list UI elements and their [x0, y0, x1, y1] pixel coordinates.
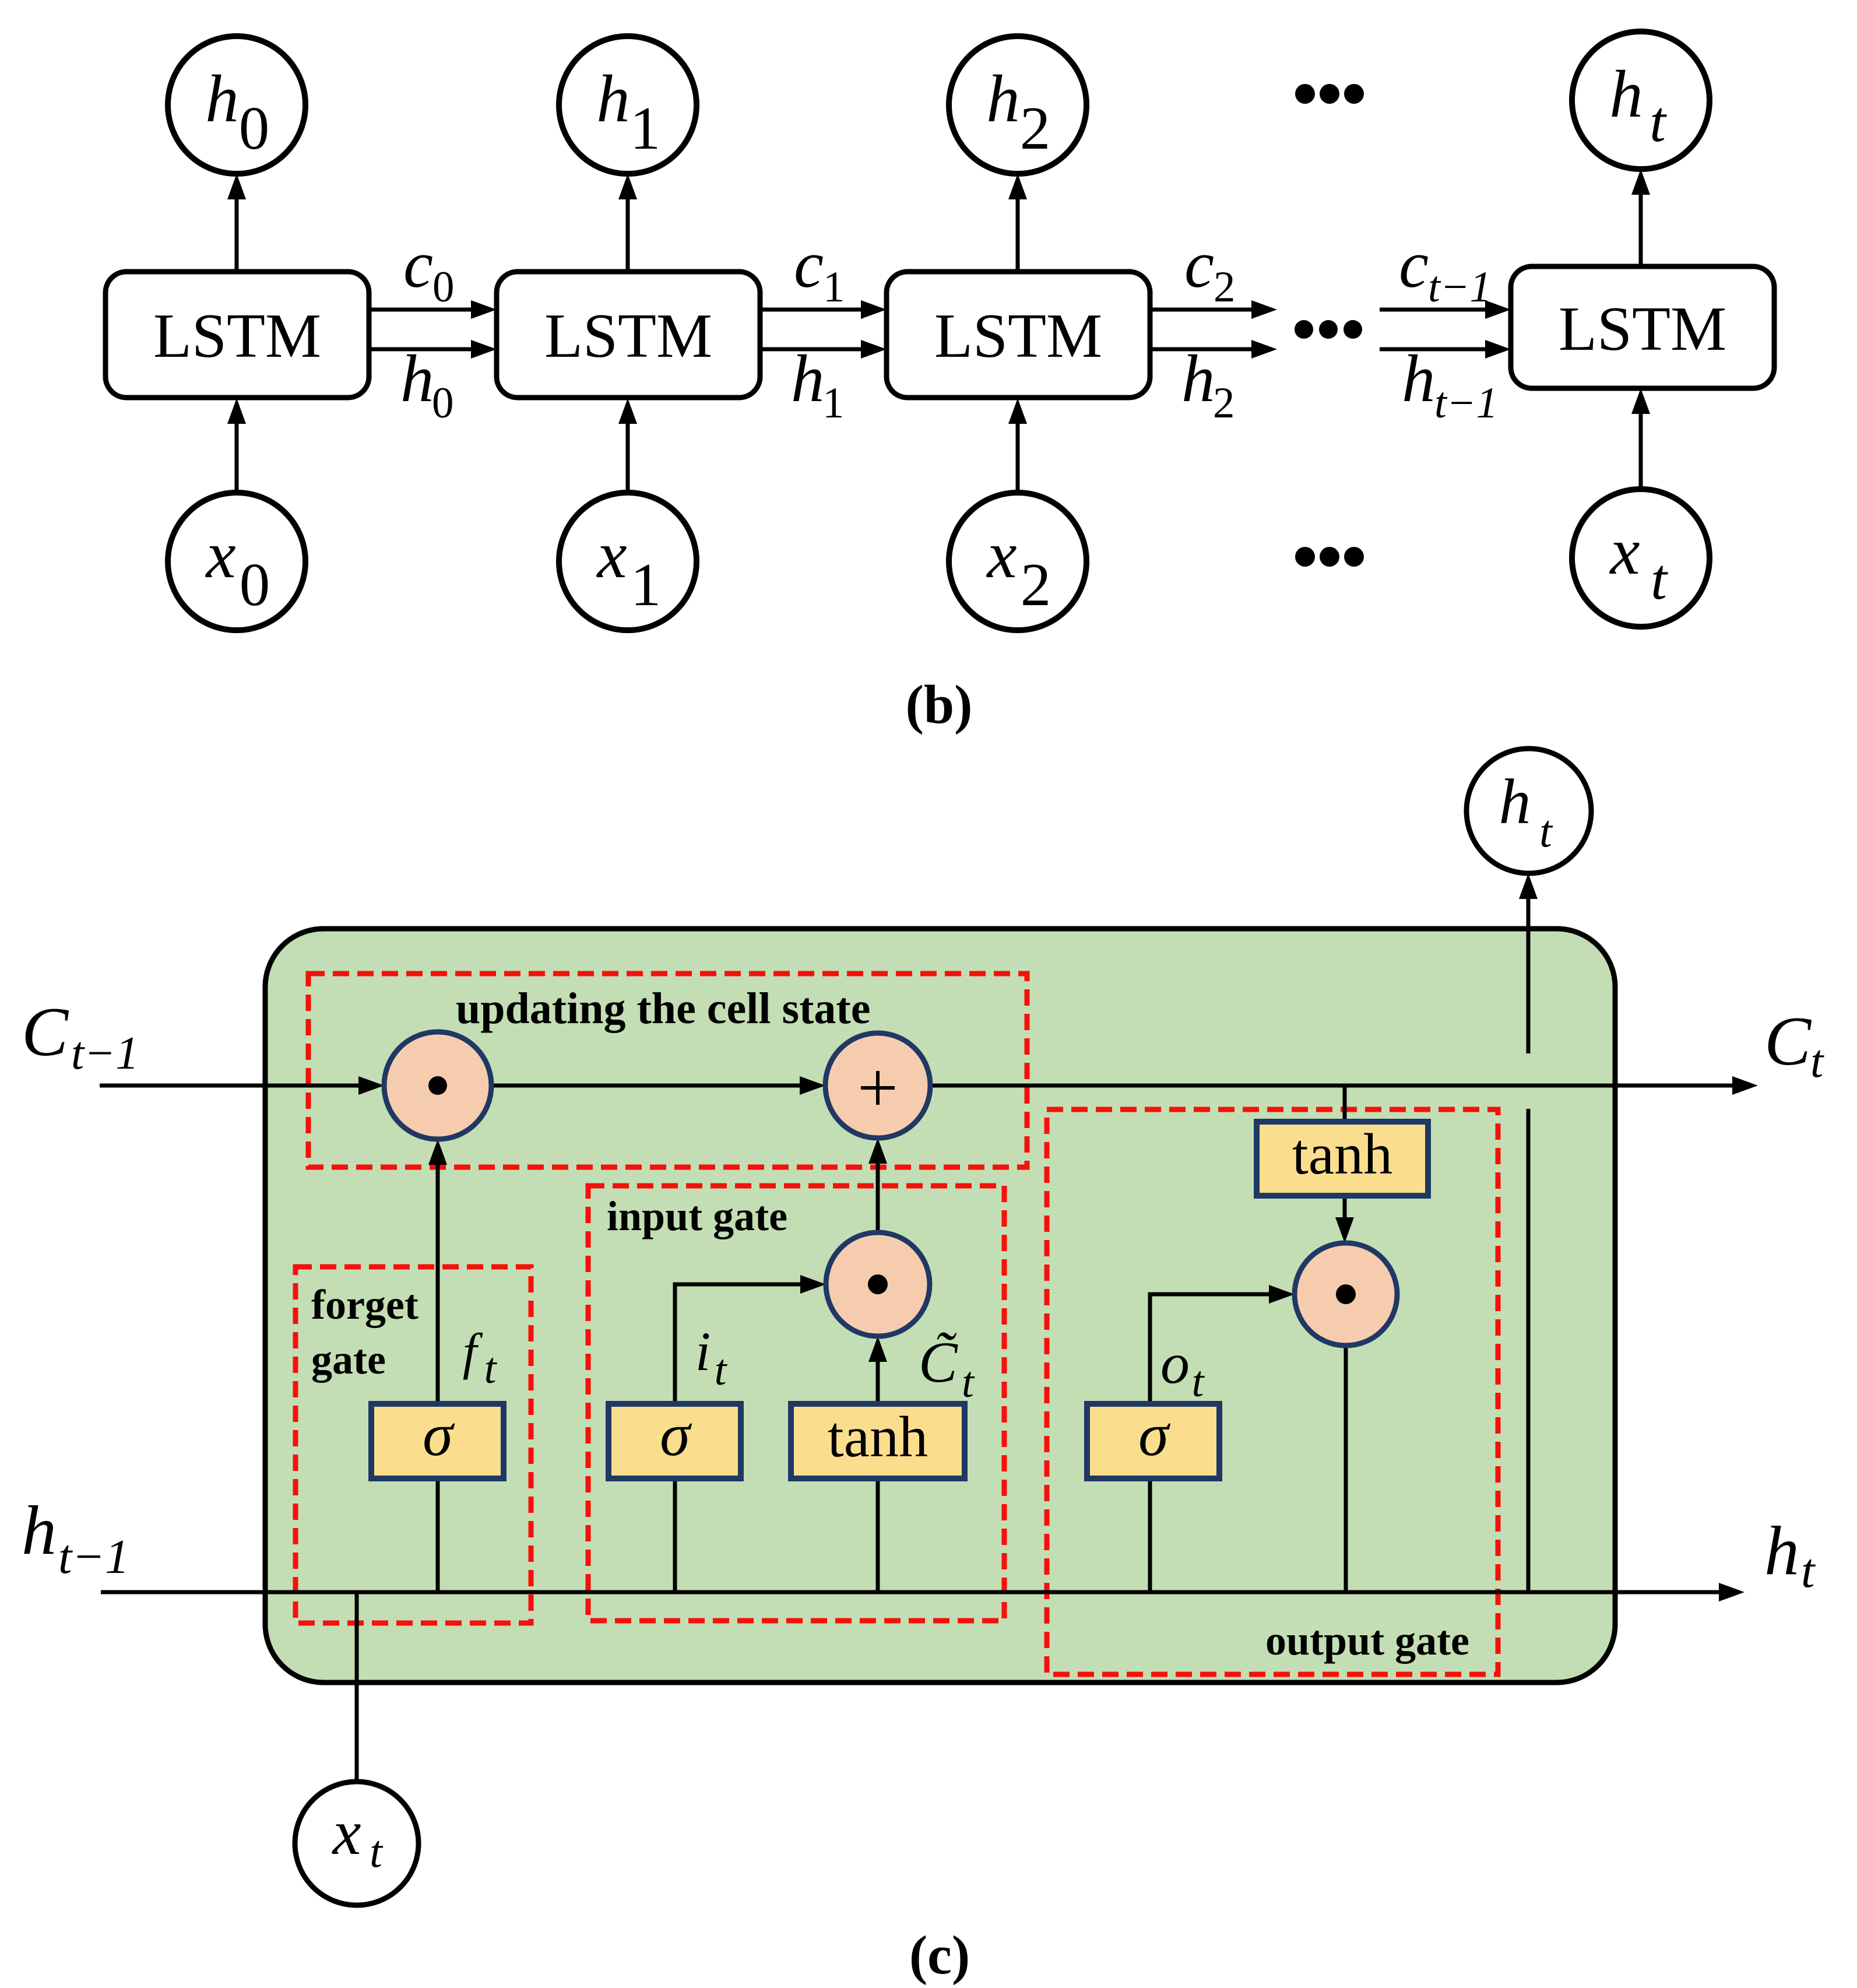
label output gate	[1265, 1617, 1469, 1664]
wire: output sigma down to h line	[1148, 1478, 1152, 1592]
component output tanh box	[1257, 1122, 1428, 1196]
wire: input tanh down to h line	[876, 1478, 880, 1592]
svg-text:0: 0	[240, 550, 270, 619]
svg-text:2: 2	[1021, 550, 1051, 619]
svg-text:x: x	[986, 518, 1017, 592]
svg-text:LSTM: LSTM	[544, 301, 712, 371]
wire: it sigma up and right into input dot-circle	[675, 1275, 826, 1404]
svg-text:1: 1	[631, 550, 662, 619]
node h0 circle	[168, 36, 305, 174]
wire: output dot-circle down to h line	[1344, 1346, 1348, 1592]
label c2	[1184, 227, 1236, 311]
component LSTM3 box	[887, 272, 1150, 398]
caption (c)	[909, 1925, 970, 1986]
svg-text:c: c	[1184, 227, 1214, 301]
svg-text:tanh: tanh	[828, 1404, 928, 1469]
label C t-1	[22, 993, 139, 1079]
region: input gate dashed box	[588, 1186, 1004, 1621]
label it	[695, 1320, 728, 1395]
component input gate dot circle	[826, 1232, 930, 1336]
svg-text:C: C	[1764, 1002, 1812, 1080]
svg-text:σ: σ	[660, 1400, 692, 1469]
wire: h t-1 line across cell	[101, 1583, 1745, 1601]
label ft	[463, 1324, 498, 1393]
wire: input dot-circle up to plus-circle	[868, 1138, 887, 1232]
svg-text:o: o	[1160, 1331, 1190, 1396]
svg-text:t−1: t−1	[1428, 263, 1492, 311]
svg-text:1: 1	[823, 263, 845, 311]
wire: ft sigma up to dot-circle	[428, 1139, 447, 1404]
wire: ot sigma up and right into output dot-circle	[1150, 1285, 1295, 1404]
label ht right	[1764, 1512, 1816, 1598]
wire: h t-1 arrow ellipsis to LSTM4	[1380, 340, 1511, 359]
wire: h2 arrow LSTM3 to ellipsis	[1150, 340, 1277, 359]
ellipsis middle row	[1295, 320, 1362, 339]
wire: input sigma down to h line	[673, 1478, 677, 1592]
svg-text:0: 0	[432, 379, 454, 427]
caption (b)	[906, 675, 973, 735]
component output gate dot circle	[1295, 1243, 1397, 1346]
svg-text:h: h	[205, 62, 239, 136]
wire: C t-1 line into cell	[100, 1076, 384, 1095]
ellipsis bottom row	[1295, 547, 1364, 567]
svg-text:2: 2	[1213, 379, 1235, 427]
svg-text:i: i	[695, 1320, 711, 1382]
svg-text:0: 0	[432, 263, 455, 311]
wire: c0 arrow LSTM1 to LSTM2	[369, 300, 497, 319]
wire: arrow LSTM1 to h0	[227, 174, 246, 272]
svg-text:h: h	[986, 62, 1020, 136]
svg-text:gate: gate	[311, 1336, 386, 1383]
component input sigma box	[609, 1400, 741, 1478]
svg-text:LSTM: LSTM	[153, 301, 321, 371]
svg-text:updating the cell state: updating the cell state	[456, 984, 870, 1033]
svg-text:t: t	[1801, 1544, 1816, 1598]
svg-text:t−1: t−1	[71, 1028, 139, 1079]
component plus circle (cell update)	[825, 1033, 930, 1138]
wire: C line dot-circle to plus-circle	[491, 1076, 825, 1095]
svg-text:t−1: t−1	[58, 1530, 129, 1584]
wire: C line branch down to output tanh	[1343, 1086, 1347, 1122]
svg-text:C: C	[22, 993, 69, 1070]
label C tilde t	[919, 1330, 975, 1407]
node x0 circle	[168, 493, 305, 630]
wire: h line up to ht (lower segment)	[1527, 1109, 1531, 1592]
svg-text:2: 2	[1214, 263, 1236, 311]
wire: h0 arrow LSTM1 to LSTM2	[369, 340, 497, 359]
label h0 wire	[400, 342, 454, 427]
svg-text:σ: σ	[1138, 1400, 1171, 1469]
label Ct	[1764, 1002, 1824, 1087]
svg-text:x: x	[596, 518, 627, 592]
node xt circle	[1572, 489, 1710, 627]
svg-text:c: c	[403, 227, 433, 301]
wire: arrow x1 to LSTM2	[618, 398, 637, 493]
wire: input tanh up to input dot-circle	[868, 1336, 887, 1404]
wire: forget sigma down to h line	[436, 1478, 440, 1592]
region: updating the cell state dashed box	[308, 974, 1027, 1167]
svg-text:x: x	[205, 518, 235, 592]
node xt input circle	[295, 1782, 418, 1905]
region: output gate dashed box	[1047, 1109, 1498, 1674]
svg-text:h: h	[1609, 57, 1643, 131]
component LSTM2 box	[497, 272, 760, 398]
svg-text:C̃: C̃	[919, 1330, 958, 1395]
wire: h line up to ht (upper segment with arrow)	[1519, 873, 1538, 1053]
component multiply dot circle (cell update)	[384, 1032, 491, 1139]
svg-text:t−1: t−1	[1434, 379, 1498, 427]
component LSTM4 box	[1511, 266, 1774, 388]
svg-text:h: h	[1499, 766, 1531, 837]
wire: arrow LSTM4 to ht	[1631, 169, 1650, 266]
label forget gate	[311, 1281, 418, 1383]
label input gate	[607, 1193, 787, 1239]
component output sigma box	[1087, 1400, 1219, 1478]
node h1 circle	[559, 36, 697, 174]
wire: h line down to xt	[355, 1592, 359, 1782]
svg-text:t: t	[1192, 1358, 1205, 1406]
label c1	[794, 227, 845, 311]
wire: arrow x2 to LSTM3	[1008, 398, 1027, 493]
label h t-1	[22, 1491, 129, 1584]
wire: C line plus-circle to Ct arrow	[930, 1076, 1758, 1095]
region: forget gate dashed box	[296, 1267, 531, 1623]
svg-text:t: t	[370, 1826, 384, 1877]
svg-text:h: h	[596, 62, 630, 136]
label c t-1	[1399, 227, 1492, 311]
component input tanh box	[791, 1404, 965, 1478]
wire: h1 arrow LSTM2 to LSTM3	[759, 340, 887, 359]
svg-text:h: h	[791, 342, 825, 416]
svg-text:σ: σ	[423, 1400, 455, 1469]
wire: arrow LSTM2 to h1	[618, 174, 637, 272]
svg-text:t: t	[484, 1344, 498, 1393]
svg-text:h: h	[1402, 342, 1436, 416]
PART C	[22, 749, 1824, 1986]
svg-text:forget: forget	[311, 1281, 418, 1328]
svg-text:LSTM: LSTM	[1559, 294, 1726, 364]
component forget sigma box	[371, 1400, 504, 1478]
wire: arrow x0 to LSTM1	[227, 398, 246, 493]
wire: c t-1 arrow ellipsis to LSTM4	[1380, 300, 1511, 319]
label ot	[1160, 1331, 1205, 1406]
node ht output circle	[1466, 749, 1591, 873]
component LSTM1 box	[105, 272, 369, 398]
svg-text:1: 1	[822, 379, 845, 427]
svg-text:t: t	[1651, 547, 1668, 612]
svg-text:x: x	[332, 1797, 361, 1868]
svg-text:LSTM: LSTM	[934, 301, 1102, 371]
svg-text:2: 2	[1020, 94, 1051, 162]
svg-text:t: t	[715, 1346, 728, 1395]
wire: arrow LSTM3 to h2	[1008, 174, 1027, 272]
wire: c1 arrow LSTM2 to LSTM3	[759, 300, 887, 319]
svg-text:h: h	[1181, 342, 1215, 416]
svg-text:1: 1	[630, 94, 661, 162]
svg-text:c: c	[1399, 227, 1429, 301]
svg-text:(c): (c)	[909, 1925, 970, 1986]
node x2 circle	[949, 493, 1086, 630]
label h1 wire	[791, 342, 845, 427]
svg-text:output gate: output gate	[1265, 1617, 1469, 1664]
label c0	[403, 227, 455, 311]
wire: arrow xt to LSTM4	[1631, 388, 1650, 489]
wire: c2 arrow LSTM3 to ellipsis	[1150, 300, 1277, 319]
node ht circle	[1572, 31, 1710, 169]
svg-text:t: t	[1539, 806, 1553, 856]
component LSTM cell green body	[265, 929, 1615, 1683]
label updating the cell state	[456, 984, 870, 1033]
label h2 wire	[1181, 342, 1235, 427]
svg-text:h: h	[400, 342, 434, 416]
svg-text:tanh: tanh	[1292, 1122, 1392, 1186]
svg-text:x: x	[1609, 514, 1640, 588]
PART B	[105, 31, 1774, 735]
svg-text:t: t	[962, 1358, 975, 1407]
svg-text:c: c	[794, 227, 824, 301]
svg-text:t: t	[1650, 89, 1667, 154]
label h t-1 wire	[1402, 342, 1498, 427]
wire: output tanh down into output dot-circle	[1335, 1196, 1354, 1243]
svg-text:(b): (b)	[906, 675, 973, 735]
svg-text:input gate: input gate	[607, 1193, 787, 1239]
ellipsis top row	[1295, 84, 1364, 104]
svg-text:h: h	[1764, 1512, 1799, 1589]
svg-text:h: h	[22, 1491, 57, 1569]
node h2 circle	[949, 36, 1086, 174]
svg-text:t: t	[1810, 1036, 1824, 1087]
node x1 circle	[559, 493, 697, 630]
svg-text:0: 0	[239, 94, 270, 162]
